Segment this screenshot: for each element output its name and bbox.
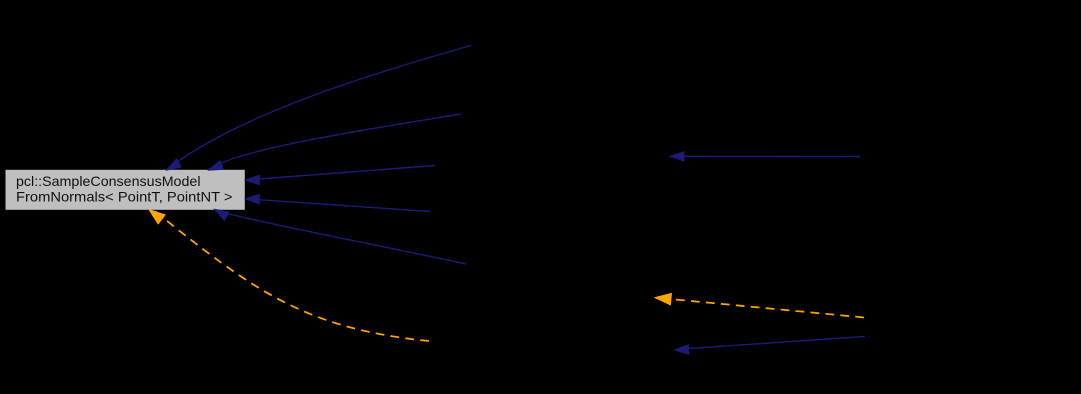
inheritance arrow: right column class to middle class (upper) <box>669 151 860 161</box>
inheritance arrow: pcl::SampleConsensusModelNormalPlane to highlighted base <box>244 194 430 212</box>
inheritance arrow: pcl::SampleConsensusModelNormalSphere to highlighted base <box>214 209 466 264</box>
svg-text:FromNormals< PointT, PointNT >: FromNormals< PointT, PointNT > <box>16 190 233 205</box>
template instantiation arrow (orange dashed) to middle class <box>655 293 864 317</box>
template instantiation arrow (orange dashed, curved) into highlighted base <box>149 210 429 341</box>
node: pcl::SampleConsensusModelFromNormals< PointT, PointNT > (highlighted grey box) <box>6 170 245 210</box>
inheritance arrow: pcl::SampleConsensusModelNormalParallelPlane to highlighted base <box>244 166 435 186</box>
inheritance arrow: right column class to middle class (lower) <box>674 337 866 355</box>
svg-text:pcl::SampleConsensusModel: pcl::SampleConsensusModel <box>16 174 201 189</box>
inheritance arrow: pcl::SampleConsensusModelCylinder to highlighted base <box>208 114 461 171</box>
inheritance arrow: pcl::SampleConsensusModelCone to highlighted base <box>166 46 471 171</box>
